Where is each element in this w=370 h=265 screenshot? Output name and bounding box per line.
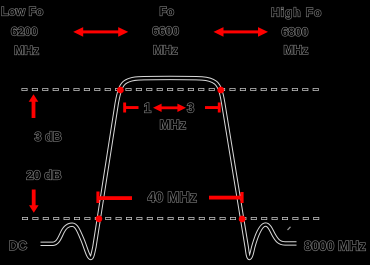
svg-text:Low Fo: Low Fo (1, 4, 43, 18)
svg-text:Fo: Fo (159, 5, 174, 19)
svg-text:MHz: MHz (14, 44, 39, 58)
svg-text:3 dB: 3 dB (35, 130, 62, 144)
svg-text:MHz: MHz (153, 43, 178, 57)
svg-text:3: 3 (187, 101, 194, 116)
svg-text:MHz: MHz (159, 117, 186, 132)
svg-text:6600: 6600 (152, 24, 179, 38)
svg-text:1: 1 (144, 101, 152, 116)
svg-text:40 MHz: 40 MHz (147, 190, 197, 206)
svg-text:High Fo: High Fo (271, 5, 322, 19)
svg-text:MHz: MHz (283, 43, 308, 57)
svg-text:20 dB: 20 dB (26, 168, 61, 183)
svg-text:8000 MHz: 8000 MHz (304, 238, 366, 253)
svg-text:DC: DC (9, 239, 27, 253)
svg-text:6200: 6200 (11, 25, 38, 39)
svg-text:6800: 6800 (281, 25, 308, 39)
